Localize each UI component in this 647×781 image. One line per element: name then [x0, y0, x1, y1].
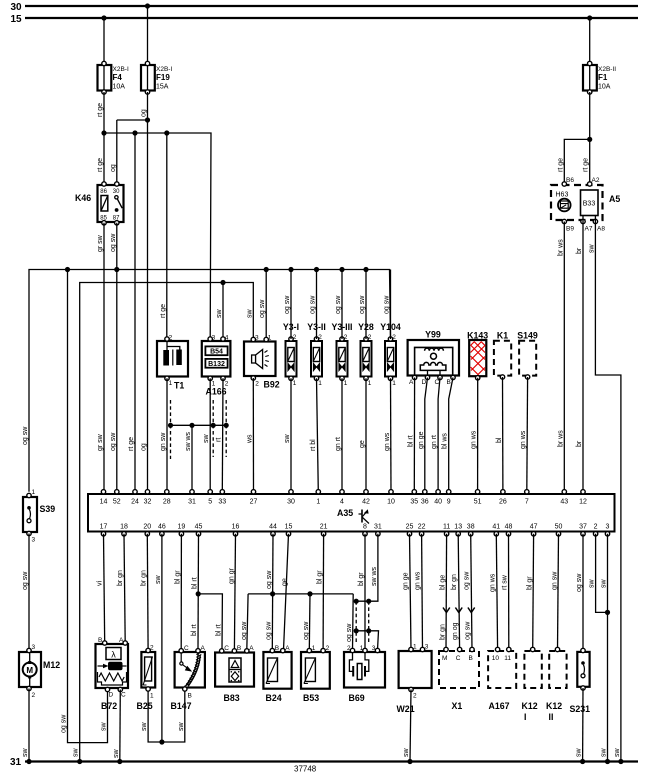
- svg-text:B: B: [188, 693, 192, 700]
- svg-text:bl gr: bl gr: [527, 576, 534, 590]
- svg-text:31: 31: [188, 499, 196, 506]
- svg-text:20: 20: [143, 524, 151, 531]
- svg-text:1: 1: [368, 380, 372, 387]
- wire bl-rt branch to B83 pin C: [198, 594, 222, 650]
- svg-text:gn ge: gn ge: [403, 572, 410, 590]
- svg-text:Y99: Y99: [425, 330, 441, 340]
- wire sw A166 pin 1 to A35 pin 5: [209, 378, 211, 492]
- relay K46: [75, 182, 124, 225]
- svg-text:sw: sw: [601, 579, 608, 589]
- Y99 coil: [425, 348, 444, 351]
- svg-text:37: 37: [579, 524, 587, 531]
- svg-text:og sw: og sw: [303, 621, 310, 640]
- svg-text:B6: B6: [566, 177, 574, 184]
- svg-text:1: 1: [392, 380, 396, 387]
- svg-text:sw ws: sw ws: [371, 566, 378, 586]
- svg-text:X2B-I: X2B-I: [156, 66, 172, 73]
- bus 30 (battery +) horizontal line: [25, 5, 638, 7]
- wire bus30 to fuse F19: [147, 6, 149, 63]
- shield dashed line B69 right: [368, 601, 370, 644]
- B72 heater resistor: [99, 673, 124, 681]
- svg-text:gn ws: gn ws: [520, 430, 527, 449]
- wire sw rail to B92 pin 3: [80, 283, 254, 762]
- svg-text:1: 1: [316, 499, 320, 506]
- svg-text:36: 36: [421, 499, 429, 506]
- svg-text:17: 17: [100, 524, 108, 531]
- junction rail to B72-D riser: [65, 267, 70, 272]
- svg-text:rt ge: rt ge: [128, 437, 135, 451]
- svg-text:F4: F4: [113, 73, 123, 82]
- svg-text:bl gr: bl gr: [358, 572, 365, 586]
- wire og jog to K46 pin 30: [117, 119, 148, 121]
- junction shield: [354, 599, 359, 604]
- wire og-sw K46 pin 87 to A35 pin 52: [116, 223, 118, 492]
- wire og-sw A35 pin 38 to X1 pin B: [471, 534, 472, 650]
- svg-text:gn ws: gn ws: [471, 430, 478, 449]
- sensor B54 label box: [205, 346, 227, 355]
- wire ge A35 pin 15 to B24 pin A: [284, 534, 289, 650]
- svg-text:og sw: og sw: [22, 571, 29, 590]
- svg-text:og sw: og sw: [576, 573, 583, 592]
- svg-text:sw: sw: [284, 434, 291, 444]
- wire shield to B69 pin 3: [356, 631, 378, 650]
- wire rt ge to K46 pin 86: [103, 133, 105, 184]
- svg-text:A: A: [409, 379, 414, 386]
- A35 bottom pins: [100, 524, 610, 536]
- junction sw on bus 31: [605, 759, 610, 764]
- svg-text:30: 30: [287, 499, 295, 506]
- wire og-sw/sw rail to B72 pin D: [68, 270, 108, 743]
- svg-text:37748: 37748: [294, 765, 317, 774]
- wire bl-rt Y99 A to A35 pin 35: [413, 378, 415, 492]
- svg-text:18: 18: [120, 524, 128, 531]
- coolant temperature sensor B53: [301, 645, 330, 703]
- svg-text:1: 1: [150, 693, 154, 700]
- wire gn-rt Y99 C to A35 pin 40: [438, 378, 440, 492]
- wire gr-sw K46 pin 85 to A35 pin 14: [103, 223, 105, 492]
- svg-text:11: 11: [504, 655, 511, 662]
- junction S231 on bus 31: [580, 759, 585, 764]
- shield dashed line at A166 pin2 wire: [225, 400, 227, 457]
- junction rail to Y3-III: [339, 267, 344, 272]
- fuel pump relay warning buzzer B92: [244, 335, 280, 390]
- B72 element: [98, 665, 105, 667]
- wire sw A35 pin 3 to bus 31: [607, 534, 609, 762]
- solenoid valve Y3-III: [331, 322, 352, 387]
- svg-text:og: og: [110, 164, 117, 172]
- B72 lambda cell: [106, 648, 121, 660]
- svg-text:46: 46: [158, 524, 166, 531]
- svg-text:og sw: og sw: [464, 571, 471, 590]
- svg-text:48: 48: [505, 524, 513, 531]
- svg-text:og sw: og sw: [266, 570, 273, 589]
- junction W21 on bus 31: [407, 759, 412, 764]
- svg-text:41: 41: [492, 524, 500, 531]
- svg-text:2: 2: [318, 334, 322, 341]
- junction B72-C on bus 31: [117, 759, 122, 764]
- svg-text:λ: λ: [111, 650, 116, 660]
- lambda probe B72: [96, 637, 129, 711]
- intake air temperature sensor B24: [263, 645, 291, 703]
- svg-text:gn rt: gn rt: [431, 435, 438, 449]
- svg-text:2: 2: [293, 334, 297, 341]
- svg-text:7: 7: [525, 499, 529, 506]
- wire br-gn A35 pin 20 to B25 pin 2: [146, 534, 149, 650]
- svg-text:86: 86: [100, 189, 107, 195]
- svg-text:M12: M12: [43, 660, 60, 670]
- svg-text:50: 50: [555, 524, 563, 531]
- fuse F4 10A: [98, 61, 129, 94]
- B147 wiper: [180, 653, 182, 663]
- A35 K-line arrow: [361, 510, 363, 523]
- svg-text:W21: W21: [397, 704, 415, 714]
- svg-text:br: br: [576, 247, 583, 254]
- arrow marker: [455, 608, 462, 613]
- pump motor M12: [19, 644, 60, 699]
- svg-text:S231: S231: [570, 704, 591, 714]
- svg-text:16: 16: [232, 524, 240, 531]
- svg-text:A2: A2: [592, 177, 600, 184]
- switch S149 (dashed): [517, 331, 538, 380]
- svg-text:44: 44: [269, 524, 277, 531]
- svg-text:26: 26: [499, 499, 507, 506]
- svg-text:og sw: og sw: [464, 621, 471, 640]
- svg-text:C: C: [456, 655, 461, 662]
- svg-text:br gn: br gn: [117, 570, 124, 586]
- arrow marker: [443, 608, 450, 613]
- svg-text:2: 2: [347, 645, 351, 652]
- junction sw on bus 31: [618, 759, 623, 764]
- wire gn-ws A35 pin 22 to W21 pin 3: [421, 534, 424, 650]
- svg-text:bl rt: bl rt: [407, 435, 414, 447]
- svg-text:A35: A35: [337, 508, 353, 518]
- wire bl-gr A35 pin 47 to K12-I: [532, 534, 535, 650]
- wire vi A35 pin 17 to B72 pin B: [104, 534, 105, 643]
- wire og to K46 pin 30: [116, 120, 118, 184]
- wire shield bus y=425.3: [171, 424, 227, 426]
- wire bl K1 to A35 pin 26: [502, 377, 504, 492]
- svg-text:3: 3: [32, 644, 36, 651]
- svg-text:1: 1: [32, 489, 36, 496]
- svg-text:1: 1: [318, 380, 322, 387]
- svg-text:31: 31: [10, 757, 22, 768]
- wire og-sw rail: [248, 593, 353, 595]
- wire gn-ge Y99 D to A35 pin 36: [425, 378, 428, 492]
- fuse F19 15A: [141, 61, 172, 94]
- wire og sw valve Y3-I up to og-sw rail: [290, 270, 292, 340]
- wire bl-ws Y99 B to A35 pin 9: [449, 378, 453, 492]
- svg-text:og sw: og sw: [22, 426, 29, 445]
- svg-text:1: 1: [268, 335, 272, 342]
- junction M12 on bus 31: [26, 759, 31, 764]
- wire gn-sw A35 pin 50 to K12-II: [558, 534, 559, 650]
- svg-text:bl rt: bl rt: [192, 577, 199, 589]
- svg-text:sw: sw: [403, 748, 410, 758]
- svg-text:87: 87: [113, 216, 120, 222]
- svg-text:D: D: [422, 379, 427, 386]
- wire br A5 pin A7 to A35 pin 12: [582, 222, 584, 492]
- wire br-ws A5 pin B9 to A35 pin 43: [563, 222, 565, 492]
- svg-text:2: 2: [392, 334, 396, 341]
- svg-text:X2B-II: X2B-II: [598, 66, 616, 73]
- svg-text:H63: H63: [556, 192, 569, 199]
- relay K46 contact: [115, 196, 118, 199]
- svg-text:gn ws: gn ws: [489, 573, 496, 592]
- svg-text:A: A: [201, 645, 206, 652]
- svg-text:C: C: [184, 645, 189, 652]
- wire og-sw rail: [29, 270, 391, 492]
- wire bus15 to fuse F1: [589, 18, 591, 64]
- svg-text:19: 19: [178, 524, 186, 531]
- svg-text:br ws: br ws: [557, 430, 564, 447]
- svg-text:3: 3: [606, 524, 610, 531]
- svg-text:gn og: gn og: [452, 622, 459, 640]
- pressure switch B83: [215, 645, 254, 703]
- wire ws B92 pin 2 to A35 pin 27: [252, 378, 254, 492]
- svg-text:X2B-I: X2B-I: [113, 66, 129, 73]
- svg-text:3: 3: [32, 537, 36, 544]
- solenoid valve Y3-II: [307, 322, 326, 387]
- svg-text:sw: sw: [178, 722, 185, 732]
- svg-text:47: 47: [530, 524, 538, 531]
- switch S231: [570, 648, 591, 714]
- svg-text:1: 1: [312, 645, 316, 652]
- solenoid valve Y3-I: [283, 322, 299, 387]
- svg-text:og sw: og sw: [359, 295, 366, 314]
- svg-text:K12: K12: [546, 701, 562, 711]
- svg-text:sw: sw: [155, 575, 162, 585]
- svg-text:14: 14: [100, 499, 108, 506]
- svg-text:br gn: br gn: [451, 574, 458, 590]
- wire sw to A166 pin 4: [222, 283, 224, 340]
- svg-text:10A: 10A: [598, 84, 611, 91]
- junction og wire: [145, 117, 150, 122]
- coolant temperature sensor B25: [137, 645, 156, 712]
- svg-text:sw: sw: [588, 244, 595, 254]
- junction shield drain to pin 31: [189, 423, 194, 428]
- svg-text:52: 52: [113, 499, 121, 506]
- svg-text:28: 28: [163, 499, 171, 506]
- wire rt-sw A35 pin 48 to A167 pin 11: [508, 534, 510, 650]
- svg-text:rt ge: rt ge: [557, 158, 564, 172]
- wire gn-ws A35 pin 41 to A167 pin 10: [496, 534, 497, 650]
- svg-text:sw: sw: [614, 748, 621, 758]
- svg-text:rt ge: rt ge: [160, 304, 167, 318]
- svg-text:2: 2: [413, 693, 417, 700]
- wire sw A35 pin 2 join pin 3: [596, 534, 608, 613]
- relay K12-I (dashed): [522, 647, 542, 722]
- wire sw Y3-I to A35 pin 30: [290, 378, 292, 492]
- wire bl-rt A35 pin 45 to B147 pin A: [197, 534, 200, 650]
- wire sw S231 to bus 31: [582, 688, 584, 762]
- svg-text:sw ws: sw ws: [185, 431, 192, 451]
- relay K46 coil: [101, 196, 108, 212]
- junction rail to Y28: [363, 267, 368, 272]
- connector A167 (dashed): [488, 647, 516, 711]
- svg-text:B25: B25: [137, 701, 153, 711]
- wire rt-ge to T1 pin 2: [166, 133, 168, 339]
- T1 winding symbol: [166, 341, 168, 366]
- svg-text:sw: sw: [246, 309, 253, 319]
- svg-text:og sw: og sw: [265, 621, 272, 640]
- junction sensor ground: [159, 739, 164, 744]
- wire og sw valve Y3-II up to og-sw rail: [316, 270, 318, 340]
- svg-text:rt sw: rt sw: [502, 574, 509, 590]
- svg-text:B132: B132: [208, 361, 225, 368]
- svg-text:br gn: br gn: [439, 624, 446, 640]
- wire gn-ws Y104 to A35 pin 10: [390, 378, 393, 492]
- wire rt-bl Y3-II to A35 pin 1: [317, 378, 319, 492]
- svg-text:sw: sw: [101, 722, 108, 732]
- svg-text:og: og: [141, 109, 148, 117]
- engine control unit A35: [88, 494, 615, 532]
- Y99 stator symbol: [420, 362, 446, 370]
- svg-text:gn ws: gn ws: [384, 432, 391, 451]
- arrow marker: [468, 608, 475, 613]
- svg-text:51: 51: [474, 499, 482, 506]
- svg-text:br: br: [576, 440, 583, 447]
- junction rail to Y3-I: [288, 267, 293, 272]
- svg-text:10A: 10A: [113, 84, 126, 91]
- svg-text:F1: F1: [598, 73, 608, 82]
- injector resistor pack W21: [397, 644, 432, 715]
- svg-text:gr sw: gr sw: [97, 234, 104, 252]
- svg-text:sw: sw: [203, 434, 210, 444]
- junction F4/K46-86: [101, 130, 106, 135]
- svg-text:bl ws: bl ws: [442, 433, 449, 449]
- wire og-sw rail to B92 pin 1: [265, 270, 267, 340]
- solenoid valve Y104: [380, 322, 401, 387]
- svg-text:B33: B33: [583, 201, 596, 208]
- junction og-sw pin44: [270, 591, 275, 596]
- junction rt-ge to T1 wire: [164, 130, 169, 135]
- svg-text:M: M: [26, 666, 33, 675]
- amplifier A166 with B54 and B132: [202, 335, 231, 397]
- junction rail og-sw K46-87 wire: [114, 267, 119, 272]
- shield dashed line at T1 wire: [170, 400, 172, 459]
- svg-text:rt ge: rt ge: [583, 158, 590, 172]
- svg-text:I: I: [524, 712, 526, 722]
- svg-text:2: 2: [344, 334, 348, 341]
- svg-text:3: 3: [255, 335, 259, 342]
- junction rt-ge to pin24 wire: [132, 130, 137, 135]
- wire og-sw S39 pin 3 to M12 pin 3: [28, 534, 30, 652]
- wire bl-gr A35 pin 8 to B69 pin 1: [364, 534, 366, 650]
- svg-text:br ws: br ws: [557, 239, 564, 256]
- wire bus15 to fuse F4: [103, 18, 105, 64]
- shield dashed line B69 left: [355, 601, 357, 644]
- B147 resistance track: [186, 654, 198, 686]
- relay K12-II (dashed): [546, 647, 567, 722]
- svg-text:9: 9: [447, 499, 451, 506]
- svg-text:40: 40: [434, 499, 442, 506]
- svg-text:sw: sw: [601, 748, 608, 758]
- svg-text:sw: sw: [73, 748, 80, 758]
- solenoid valve Y28: [358, 322, 374, 387]
- svg-text:21: 21: [320, 524, 328, 531]
- A35 top pins: [100, 490, 587, 506]
- ignition transformer T1: [157, 335, 188, 391]
- wire bl-ge/br-gn A35 pin 11 to X1 pin M: [445, 534, 448, 650]
- wire rt-ge F1 to A5 pin A2: [589, 92, 591, 184]
- wire sw A5 pin A8 to bus 31: [595, 222, 621, 762]
- svg-text:A5: A5: [609, 194, 620, 204]
- svg-text:br gn: br gn: [140, 570, 147, 586]
- svg-text:B9: B9: [566, 226, 574, 233]
- svg-text:B54: B54: [210, 348, 223, 355]
- relay K143 (highlighted): [467, 331, 488, 380]
- svg-text:ws: ws: [247, 434, 254, 444]
- svg-text:S39: S39: [40, 504, 56, 514]
- wire og sw valve Y104 up to og-sw rail: [390, 270, 392, 340]
- wire bl-gr A35 pin 21 to B53 pin 2: [322, 534, 325, 650]
- svg-text:D: D: [109, 692, 114, 699]
- svg-text:2: 2: [150, 645, 154, 652]
- svg-text:gn rt: gn rt: [335, 437, 342, 451]
- svg-text:10: 10: [387, 499, 395, 506]
- svg-text:31: 31: [374, 524, 382, 531]
- wire og-sw A35 pin 44 through rail to B24 pin B: [271, 534, 274, 650]
- wire gn-gr A35 pin 16 to B83 pin B: [234, 534, 235, 650]
- svg-text:X1: X1: [452, 701, 463, 711]
- svg-text:bl ge: bl ge: [440, 575, 447, 590]
- svg-text:12: 12: [579, 499, 587, 506]
- svg-text:2: 2: [169, 335, 173, 342]
- wire sw M12 pin 2 to bus 31: [28, 689, 30, 762]
- svg-text:B69: B69: [349, 693, 365, 703]
- junction rail to B92 pin 1: [264, 267, 269, 272]
- svg-text:A8: A8: [597, 226, 605, 233]
- svg-text:1: 1: [169, 380, 173, 387]
- svg-text:gn ge: gn ge: [418, 431, 425, 449]
- svg-text:sw: sw: [141, 722, 148, 732]
- wire og-sw rail to B69 pin 2: [352, 594, 355, 650]
- svg-text:3: 3: [212, 335, 216, 342]
- junction bl-rt: [196, 591, 201, 596]
- wire og sw valve Y28 up to og-sw rail: [365, 270, 367, 340]
- svg-text:1: 1: [360, 645, 364, 652]
- svg-text:B92: B92: [264, 380, 280, 390]
- svg-text:ge: ge: [359, 440, 366, 448]
- svg-text:og sw: og sw: [241, 621, 248, 640]
- svg-text:4: 4: [340, 499, 344, 506]
- svg-text:K1: K1: [497, 331, 508, 341]
- junction shield low: [354, 628, 359, 633]
- wire rt-ge F4 to node: [103, 92, 105, 133]
- wire gn-ws S149 to A35 pin 7: [526, 377, 529, 492]
- svg-text:1: 1: [293, 380, 297, 387]
- svg-text:22: 22: [418, 524, 426, 531]
- wire br-gn/gn-og A35 pin 13 to X1 pin C: [458, 534, 459, 650]
- sensor B132 label box: [205, 359, 227, 368]
- svg-text:C: C: [224, 645, 229, 652]
- svg-text:K46: K46: [75, 193, 91, 203]
- fuse F1 10A: [583, 61, 616, 94]
- junction rail to Y3-II: [314, 267, 319, 272]
- svg-text:A: A: [119, 637, 124, 644]
- wire og-sw A35 pin 37 to S231: [582, 534, 584, 650]
- svg-text:rt ge: rt ge: [97, 103, 104, 117]
- svg-text:35: 35: [410, 499, 418, 506]
- junction sw rail on bus 31: [77, 759, 82, 764]
- wire rt-ge to A35 pin 24: [134, 133, 136, 492]
- svg-text:B24: B24: [266, 693, 282, 703]
- svg-text:bl rt: bl rt: [191, 624, 198, 636]
- svg-text:27: 27: [250, 499, 258, 506]
- wire sw-ws shield drain to A35 pin 31: [191, 425, 193, 492]
- svg-text:15: 15: [285, 524, 293, 531]
- svg-text:1: 1: [413, 644, 417, 651]
